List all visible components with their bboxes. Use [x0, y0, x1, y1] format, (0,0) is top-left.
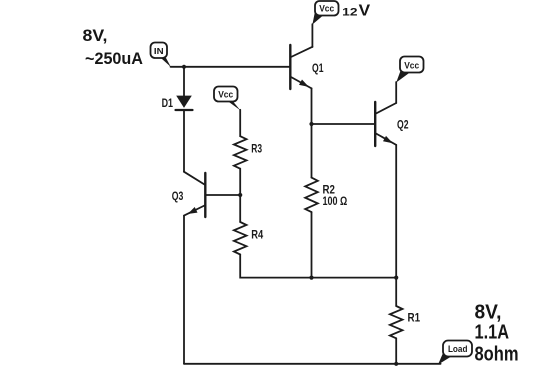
- junction node Q1 emitter / Q2 base / R2: [309, 122, 313, 126]
- wire R3 bottom to Q3 base junction: [239, 169, 241, 195]
- resistor R2: [305, 178, 318, 213]
- wire junction down to R2 top: [311, 124, 313, 178]
- transistor Q2: [375, 102, 396, 146]
- svg-text:Q2: Q2: [397, 120, 409, 132]
- wire bottom rail to Load: [184, 363, 441, 365]
- junction node Q2 emitter / R1: [394, 276, 398, 280]
- svg-text:100 Ω: 100 Ω: [323, 196, 348, 208]
- junction node R2 bottom: [309, 276, 313, 280]
- svg-text:R1: R1: [408, 313, 421, 325]
- svg-text:Load: Load: [448, 344, 468, 355]
- wire R4 bottom then right to Q2 emitter net: [240, 255, 396, 278]
- svg-text:8V,: 8V,: [83, 27, 108, 45]
- wire Q1 emitter to Q2 base: [312, 123, 375, 125]
- resistor R4: [234, 222, 247, 255]
- wire Q1 collector vertical to Vcc: [311, 24, 313, 47]
- Vcc flag middle (R3 supply): [214, 87, 240, 111]
- svg-text:8ohm: 8ohm: [475, 343, 519, 365]
- junction node rail / R1 bottom: [394, 362, 398, 366]
- svg-text:8V,: 8V,: [475, 301, 502, 323]
- wire Q2 collector vertical to Vcc: [395, 82, 397, 103]
- Vcc flag top (12V supply): [312, 1, 338, 25]
- wire base junction to R4 top: [239, 195, 241, 222]
- svg-text:R3: R3: [251, 144, 262, 156]
- diode D1: [176, 96, 193, 110]
- wire Q3 base: [207, 194, 241, 196]
- svg-text:R4: R4: [251, 229, 263, 241]
- svg-text:V: V: [359, 3, 371, 20]
- svg-text:IN: IN: [154, 46, 164, 56]
- resistor R3: [234, 136, 247, 169]
- svg-text:Vcc: Vcc: [319, 4, 334, 15]
- IN flag: [151, 43, 171, 68]
- wire Q3 emitter down to rail: [183, 216, 185, 364]
- wire Vcc flag to R3 top: [239, 110, 241, 136]
- svg-text:Vcc: Vcc: [404, 60, 419, 71]
- Load flag: [438, 341, 472, 365]
- wire Q2 emitter vertical down: [395, 145, 397, 278]
- Vcc flag right (Q2 supply): [396, 57, 423, 83]
- svg-text:D1: D1: [162, 98, 174, 110]
- wire junction down to D1 anode: [183, 67, 185, 96]
- svg-text:12: 12: [342, 7, 357, 19]
- transistor Q3: [184, 172, 205, 217]
- svg-text:Q3: Q3: [172, 191, 184, 203]
- resistor R1: [390, 306, 403, 338]
- svg-text:1.1A: 1.1A: [475, 321, 510, 343]
- junction node IN/D1: [182, 65, 186, 69]
- svg-text:Q1: Q1: [312, 63, 324, 75]
- svg-text:~250uA: ~250uA: [85, 50, 143, 68]
- wire D1 cathode to Q3 collector: [183, 110, 185, 172]
- transistor Q1: [290, 45, 312, 89]
- wire lower junction to R1 top: [395, 278, 397, 306]
- svg-text:R2: R2: [323, 185, 335, 197]
- wire Q1 emitter vertical: [311, 88, 313, 124]
- svg-text:Vcc: Vcc: [218, 90, 233, 101]
- wire R1 bottom to ground rail: [395, 338, 397, 364]
- wire IN flag to Q1 base: [171, 66, 290, 68]
- junction node Q3 base / R3 / R4: [238, 193, 242, 197]
- wire R2 bottom to lower junction: [311, 212, 313, 278]
